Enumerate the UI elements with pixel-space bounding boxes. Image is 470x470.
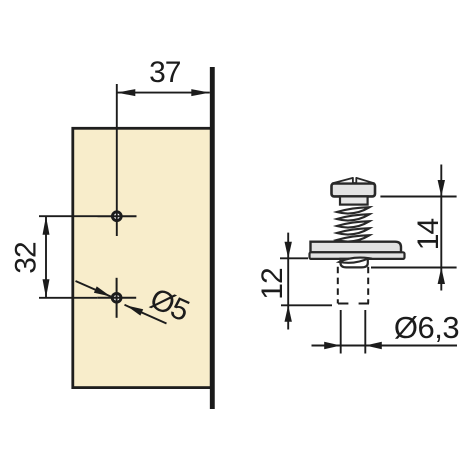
extension line top for 12	[280, 257, 308, 259]
extension line bottom for 12	[281, 304, 332, 306]
hole H2	[112, 293, 121, 302]
arrow up 32	[43, 216, 50, 235]
thread coil turn 3	[337, 221, 370, 227]
arrow up 12	[285, 305, 292, 322]
svg-text:14: 14	[412, 219, 445, 251]
svg-text:Ø6,3: Ø6,3	[394, 310, 459, 345]
leader line lower for hole diameter	[125, 305, 167, 324]
dimension line 32	[45, 216, 47, 298]
screw neck	[340, 196, 368, 204]
leader arrow upper	[94, 286, 111, 296]
arrow right 37	[191, 89, 210, 96]
arrow down 14	[438, 180, 445, 197]
thread tip turn	[339, 258, 369, 263]
mounting plate	[73, 128, 212, 387]
screw head top left with slot wall	[333, 178, 353, 183]
extension line bottom for 14	[371, 267, 457, 269]
extension line top for 32	[39, 215, 98, 217]
extension line left for diameter 6,3	[340, 310, 342, 354]
extension line for 37 through hole H1	[116, 84, 118, 236]
arrow down 12	[285, 242, 292, 258]
leader line upper for hole diameter	[76, 281, 112, 297]
svg-text:32: 32	[10, 242, 43, 274]
arrow left d63	[365, 342, 382, 349]
thread coil turn 5	[337, 235, 370, 241]
thread coil turn 2	[337, 214, 370, 220]
extension line right for diameter 6,3	[364, 310, 366, 354]
screw head band	[332, 183, 376, 196]
hole H2 crosshair	[97, 297, 136, 299]
arrow left 37	[117, 89, 136, 96]
arrow up 14	[438, 268, 445, 285]
screw tip cap	[341, 259, 368, 268]
dowel hidden outline bottom	[338, 303, 369, 305]
dimension line 37	[117, 92, 210, 94]
hole H1	[112, 212, 121, 221]
screw head top right with slot wall	[356, 178, 374, 183]
svg-text:37: 37	[149, 56, 181, 89]
cabinet side wall line	[210, 67, 215, 409]
dowel hidden outline right	[367, 267, 369, 304]
leader arrow lower	[126, 306, 143, 316]
thread coil turn 1	[337, 207, 370, 213]
dimension line 12	[287, 233, 289, 330]
extension line top for 14	[380, 196, 456, 198]
dowel hidden outline left	[337, 267, 339, 304]
svg-text:12: 12	[256, 268, 289, 300]
washer top plate	[311, 242, 402, 253]
hole H1 crosshair	[98, 215, 137, 217]
arrow right d63	[324, 342, 341, 349]
dimension line 14	[440, 165, 442, 291]
dimension line diameter 6,3	[312, 345, 458, 347]
thread coil turn 4	[337, 228, 370, 234]
washer bottom plate	[310, 252, 405, 259]
extension line bottom for 32	[39, 297, 97, 299]
arrow down 32	[43, 279, 50, 298]
